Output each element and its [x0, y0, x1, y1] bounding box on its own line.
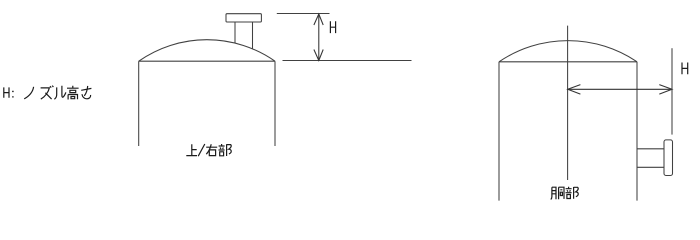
label dou (body) kanji	[551, 187, 564, 199]
left nozzle flange	[226, 14, 261, 22]
arrowhead up	[314, 14, 323, 25]
right tank shoulder line	[499, 61, 637, 63]
dimension bottom reference line	[283, 60, 412, 62]
left tank right side wall	[274, 61, 276, 146]
vertical dimension reference line right	[671, 48, 673, 134]
right nozzle stem bottom line	[637, 166, 664, 168]
right nozzle stem top line	[637, 148, 664, 150]
right tank right side wall	[636, 62, 638, 201]
vertical dimension arrow line H	[318, 14, 320, 61]
right tank dome arc	[499, 41, 637, 62]
legend colon	[12, 91, 14, 98]
label slash	[198, 144, 205, 156]
label ue (top) kanji	[186, 144, 197, 155]
arrowhead left	[568, 85, 581, 95]
label bu (part) kanji	[219, 144, 232, 156]
right nozzle flange	[664, 140, 673, 176]
label migi (right) kanji	[206, 144, 217, 155]
left nozzle stem right line	[252, 22, 254, 49]
arrowhead down	[314, 50, 323, 61]
label H (left diagram)	[330, 21, 335, 33]
legend katakana no	[24, 87, 33, 99]
left nozzle stem left line	[234, 22, 236, 44]
left tank left side wall	[138, 61, 140, 146]
legend hiragana sa	[81, 86, 91, 99]
right tank left side wall	[498, 62, 500, 201]
arrowhead right	[659, 85, 672, 95]
legend katakana ru	[54, 86, 66, 99]
legend letter H	[4, 87, 9, 97]
legend katakana zu	[41, 86, 54, 100]
left tank dome arc	[139, 40, 275, 62]
label bu (part) kanji 2	[566, 187, 579, 199]
right tank centerline	[567, 26, 569, 180]
horizontal dimension arrow line	[568, 88, 672, 90]
dimension top reference line	[277, 13, 330, 15]
label H (right diagram)	[682, 63, 688, 75]
left tank shoulder line	[139, 60, 275, 62]
legend kanji taka (high)	[67, 86, 79, 100]
